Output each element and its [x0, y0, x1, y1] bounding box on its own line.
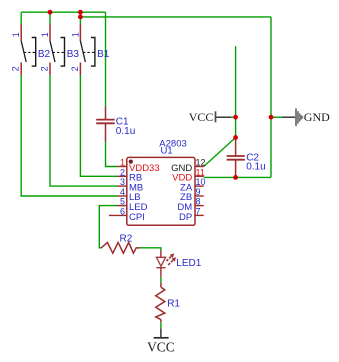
pin 8 — [195, 205, 204, 207]
power VCC (top) — [189, 110, 231, 124]
wire — [80, 16, 271, 18]
svg-text:2: 2 — [11, 66, 21, 71]
junction — [233, 175, 238, 180]
svg-text:6: 6 — [120, 207, 125, 217]
pin 9 — [195, 195, 204, 197]
power VCC (bottom) — [147, 328, 175, 354]
svg-text:11: 11 — [196, 167, 205, 177]
wire — [105, 12, 107, 106]
wire — [50, 75, 117, 186]
svg-text:8: 8 — [196, 197, 201, 207]
pin 12 — [195, 166, 204, 168]
svg-text:7: 7 — [196, 207, 201, 217]
wire — [160, 277, 162, 282]
switch B1 — [70, 24, 110, 75]
svg-text:LED1: LED1 — [176, 258, 201, 269]
wire — [270, 17, 272, 178]
svg-text:U1: U1 — [161, 146, 173, 157]
switch B2 — [11, 24, 51, 75]
junction — [233, 115, 238, 120]
resistor R2 — [101, 234, 140, 254]
wire — [235, 46, 237, 137]
svg-text:2: 2 — [120, 167, 125, 177]
wire — [20, 12, 22, 24]
junction — [48, 10, 53, 15]
pin 10 — [195, 185, 204, 187]
capacitor C1 — [96, 107, 135, 142]
wire — [140, 248, 161, 251]
LED LED1 — [156, 251, 201, 278]
svg-text:0.1u: 0.1u — [116, 126, 135, 137]
junction — [78, 10, 83, 15]
junction — [78, 15, 83, 20]
wire — [79, 12, 81, 24]
svg-text:R2: R2 — [120, 234, 133, 245]
svg-text:9: 9 — [196, 187, 201, 197]
pin 7 — [195, 214, 204, 216]
pin 2 — [117, 175, 127, 177]
IC U1 A2803 — [127, 139, 195, 226]
svg-text:VCC: VCC — [189, 110, 214, 124]
wire — [80, 75, 117, 176]
svg-text:3: 3 — [120, 177, 125, 187]
svg-text:2: 2 — [39, 66, 49, 71]
switch B3 — [39, 24, 79, 75]
svg-text:4: 4 — [120, 187, 125, 197]
capacitor C2 — [227, 138, 266, 178]
svg-text:B1: B1 — [97, 49, 110, 60]
svg-text:12: 12 — [196, 158, 206, 168]
svg-text:1: 1 — [120, 158, 125, 168]
svg-text:1: 1 — [11, 32, 21, 37]
ground GND (right) — [282, 108, 330, 126]
resistor R1 — [156, 282, 181, 322]
wire — [21, 75, 117, 196]
svg-text:1: 1 — [40, 32, 50, 37]
svg-text:1: 1 — [70, 32, 80, 37]
svg-text:CPI: CPI — [129, 212, 145, 223]
svg-text:B3: B3 — [67, 49, 80, 60]
svg-text:GND: GND — [304, 110, 330, 124]
wire — [49, 12, 51, 24]
pin 11 — [195, 175, 204, 177]
svg-text:VCC: VCC — [147, 339, 175, 354]
svg-text:R1: R1 — [167, 299, 180, 310]
pin 3 — [117, 185, 127, 187]
wire — [160, 322, 162, 328]
wire — [204, 138, 236, 167]
pin 1 — [117, 166, 127, 168]
junction — [269, 115, 274, 120]
wire — [106, 142, 118, 167]
wire — [231, 116, 236, 118]
pin 5 — [117, 205, 127, 207]
svg-text:DP: DP — [179, 212, 192, 223]
wire — [99, 206, 117, 248]
wire — [204, 176, 271, 178]
svg-text:5: 5 — [120, 197, 125, 207]
wire — [271, 116, 282, 118]
svg-text:10: 10 — [196, 177, 206, 187]
pin 4 — [117, 195, 127, 197]
svg-text:2: 2 — [70, 66, 80, 71]
svg-text:0.1u: 0.1u — [246, 161, 265, 172]
junction — [233, 135, 238, 140]
pin 6 — [109, 214, 127, 216]
wire — [21, 11, 105, 13]
svg-text:B2: B2 — [38, 49, 51, 60]
